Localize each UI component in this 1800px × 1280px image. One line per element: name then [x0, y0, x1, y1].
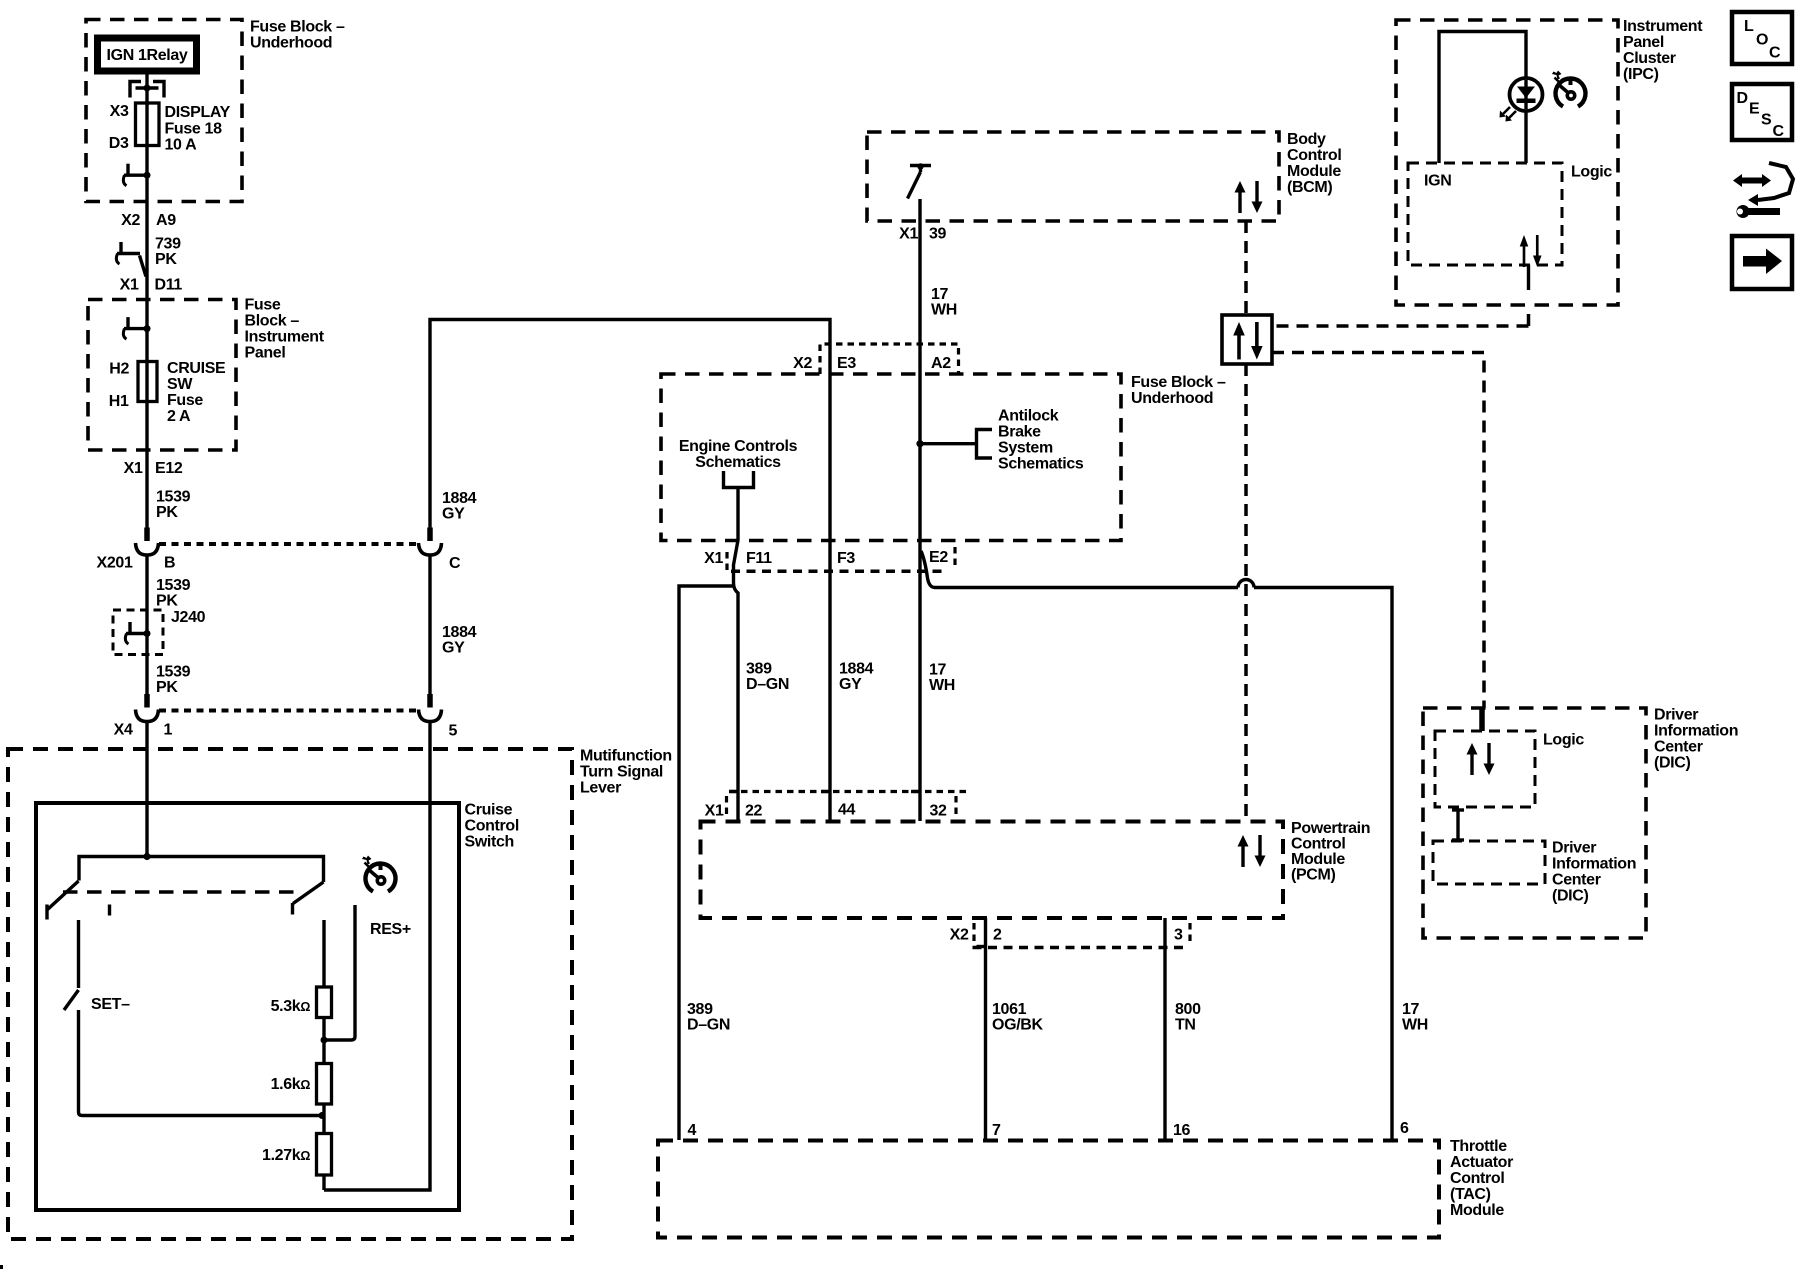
antilock brake system note: [998, 408, 1084, 473]
DIC inner box: [1433, 841, 1545, 884]
svg-text:C: C: [1769, 45, 1781, 62]
resistor 1.27k label: [262, 1147, 310, 1164]
svg-text:OG/BK: OG/BK: [992, 1017, 1043, 1034]
BCM updown arrows: [1235, 181, 1263, 213]
wire + junction SET: [319, 1104, 326, 1134]
connector PCM X1 labels: [705, 802, 947, 820]
wire fuse to X201: [145, 401, 148, 529]
page corner mark: [0, 1265, 3, 1269]
svg-text:Fuse Block –: Fuse Block –: [250, 19, 345, 36]
svg-text:A9: A9: [156, 212, 176, 229]
svg-text:RES+: RES+: [370, 921, 411, 938]
svg-text:1539: 1539: [156, 664, 191, 681]
wire 1539 PK label (below J240): [156, 664, 191, 697]
svg-text:389: 389: [746, 661, 772, 678]
svg-text:L: L: [1744, 18, 1754, 35]
svg-text:1061: 1061: [992, 1001, 1027, 1018]
switch gauge icon: [362, 856, 396, 892]
svg-text:GY: GY: [839, 676, 862, 693]
svg-text:SET–: SET–: [91, 996, 130, 1013]
svg-text:(TAC): (TAC): [1450, 1186, 1491, 1203]
switch center contact tick: [108, 905, 111, 916]
IPC internal wire: [1439, 32, 1526, 164]
svg-text:X2: X2: [793, 355, 812, 372]
wire 17 WH label: [931, 286, 957, 319]
connector row PCM X2 2 3: [973, 923, 1191, 948]
DIC inner label: [1552, 840, 1636, 905]
svg-text:Throttle: Throttle: [1450, 1138, 1507, 1155]
svg-text:1539: 1539: [156, 489, 191, 506]
svg-text:Fuse: Fuse: [167, 392, 203, 409]
antilock bracket: [977, 430, 993, 459]
wire + junction RES: [321, 1018, 328, 1064]
svg-text:F11: F11: [746, 550, 772, 567]
svg-text:800: 800: [1175, 1001, 1201, 1018]
fuse block instrument panel label: [245, 297, 325, 362]
connector X1 39 labels: [899, 226, 946, 243]
wire 17 WH from BCM: [918, 199, 921, 552]
wire fuse to X2-A9: [145, 145, 148, 299]
svg-text:PK: PK: [156, 679, 178, 696]
svg-text:1884: 1884: [442, 490, 477, 507]
driver information center label: [1654, 707, 1738, 772]
svg-text:2: 2: [993, 927, 1002, 944]
svg-text:IGN 1Relay: IGN 1Relay: [107, 47, 188, 64]
cruise control switch box: [36, 803, 459, 1210]
resistor 1.27k: [317, 1134, 332, 1176]
engine controls bracket: [724, 471, 754, 488]
svg-text:O: O: [1756, 32, 1768, 49]
wire 17 WH label (mid): [929, 662, 955, 695]
svg-text:X1: X1: [704, 550, 723, 567]
fuse CRUISE pin labels H2 H1: [109, 361, 130, 411]
wire 800 TN label: [1175, 1001, 1201, 1034]
svg-text:Center: Center: [1552, 872, 1601, 889]
svg-text:Underhood: Underhood: [250, 35, 332, 52]
svg-text:X2: X2: [950, 927, 969, 944]
wire 1 into switch: [143, 722, 150, 861]
powertrain control module box: [701, 822, 1284, 919]
svg-text:16: 16: [1173, 1122, 1191, 1139]
svg-text:X2: X2: [121, 212, 140, 229]
dashed link logic to junction box: [1272, 314, 1529, 326]
body control module box: [867, 132, 1279, 221]
svg-text:D–GN: D–GN: [746, 676, 789, 693]
wire 17WH arch over dashed line: [1238, 580, 1254, 588]
svg-text:(IPC): (IPC): [1623, 66, 1659, 83]
body control module label: [1287, 131, 1341, 196]
fuse block underhood (left) label: [250, 19, 345, 52]
wire relay to fuse: [145, 75, 148, 105]
svg-text:Logic: Logic: [1543, 732, 1584, 749]
wire 739 PK label: [155, 236, 181, 269]
IGN label: [1424, 173, 1451, 190]
junction box arrows: [1233, 322, 1262, 359]
svg-text:WH: WH: [1402, 1017, 1428, 1034]
svg-text:Mutifunction: Mutifunction: [580, 748, 672, 765]
svg-text:Control: Control: [1291, 836, 1345, 853]
connector X201 dotted line: [159, 542, 419, 546]
cruise control switch label: [465, 802, 519, 851]
icon right arrow box: [1732, 236, 1792, 289]
multifunction turn signal lever box: [8, 749, 572, 1239]
PCM updown arrows: [1238, 835, 1266, 867]
svg-text:17: 17: [931, 286, 949, 303]
fuse block internal clip: [123, 164, 150, 186]
svg-text:Information: Information: [1654, 723, 1738, 740]
svg-text:4: 4: [688, 1122, 697, 1139]
connector 5 label: [449, 723, 458, 740]
connector PCM X2 labels: [950, 927, 1183, 944]
dashed link junction to DIC: [1272, 353, 1484, 709]
svg-text:C: C: [449, 555, 461, 572]
svg-text:WH: WH: [931, 302, 957, 319]
fuse block ip internal clip: [123, 317, 150, 339]
svg-text:1.27kΩ: 1.27kΩ: [262, 1147, 310, 1164]
svg-text:Control: Control: [465, 818, 519, 835]
svg-text:D11: D11: [155, 277, 183, 294]
IPC gauge icon: [1552, 71, 1586, 107]
svg-text:WH: WH: [929, 677, 955, 694]
svg-text:S: S: [1761, 112, 1772, 129]
svg-text:GY: GY: [442, 640, 465, 657]
wire 389 D-GN label (bottom): [687, 1001, 730, 1034]
svg-text:32: 32: [930, 803, 948, 820]
connector X4 dotted line: [159, 709, 419, 713]
svg-text:5.3kΩ: 5.3kΩ: [271, 998, 311, 1015]
svg-text:(DIC): (DIC): [1552, 888, 1588, 905]
dashed link junction down to PCM: [1244, 364, 1248, 821]
wire 800 TN: [1163, 918, 1166, 1140]
switch rocker right lever: [293, 882, 324, 915]
svg-text:739: 739: [155, 236, 181, 253]
logic label (DIC): [1543, 732, 1584, 749]
svg-text:SW: SW: [167, 376, 193, 393]
svg-text:Actuator: Actuator: [1450, 1154, 1513, 1171]
wire 1061 OG/BK: [977, 918, 986, 1140]
svg-text:Lever: Lever: [580, 780, 621, 797]
svg-text:(BCM): (BCM): [1287, 179, 1332, 196]
svg-text:Body: Body: [1287, 131, 1326, 148]
svg-text:PK: PK: [155, 251, 177, 268]
svg-text:Module: Module: [1450, 1202, 1504, 1219]
SET- switch upper wire: [77, 920, 80, 988]
switch rocker bar: [79, 857, 324, 883]
resistor 5.3k label: [271, 998, 311, 1015]
wire 17WH to TAC pin6: [1254, 588, 1392, 1141]
svg-text:Underhood: Underhood: [1131, 390, 1213, 407]
RES+ wire: [324, 905, 355, 1040]
svg-text:1: 1: [164, 722, 173, 739]
PCM X1 terminal stubs: [729, 790, 920, 793]
fuse DISPLAY Fuse 18 10A: [136, 103, 160, 146]
svg-text:389: 389: [687, 1001, 713, 1018]
svg-text:E: E: [1749, 101, 1760, 118]
svg-text:Fuse 18: Fuse 18: [165, 121, 223, 138]
wire X201 to X4: [145, 555, 148, 695]
svg-text:Antilock: Antilock: [998, 408, 1059, 425]
powertrain control module label: [1291, 820, 1370, 884]
svg-text:X4: X4: [114, 722, 133, 739]
svg-text:D–GN: D–GN: [687, 1017, 730, 1034]
DIC logic updown arrows: [1467, 743, 1495, 775]
instrument panel cluster label: [1623, 18, 1703, 83]
wire into cruise fuse: [145, 299, 148, 402]
LED indicator: [1500, 78, 1543, 122]
svg-text:X3: X3: [110, 103, 129, 120]
wire 1884 GY label (mid): [839, 661, 874, 694]
connector X201 labels: [97, 555, 176, 572]
svg-text:Control: Control: [1287, 147, 1341, 164]
BCM internal switch: [908, 163, 932, 198]
svg-text:IGN: IGN: [1424, 173, 1451, 190]
wire resistor to bottom: [322, 1175, 325, 1190]
svg-text:D3: D3: [109, 135, 129, 152]
svg-text:B: B: [164, 555, 175, 572]
wire 17 WH label (bottom): [1402, 1001, 1428, 1034]
svg-text:Engine Controls: Engine Controls: [679, 438, 798, 455]
LED to logic wire: [1524, 111, 1527, 163]
svg-text:X1: X1: [120, 277, 139, 294]
connector X1 E12 labels: [124, 460, 183, 477]
multifunction turn signal lever label: [580, 748, 672, 797]
svg-text:X1: X1: [899, 226, 918, 243]
driver information center box: [1423, 708, 1646, 938]
wire to 5.3k resistor: [322, 920, 325, 988]
logic label (IPC): [1571, 164, 1612, 181]
svg-text:Turn Signal: Turn Signal: [580, 764, 663, 781]
svg-text:Cruise: Cruise: [465, 802, 513, 819]
wire 389 D-GN from engine controls: [734, 488, 739, 822]
fuse block underhood (left) box: [86, 20, 242, 202]
svg-text:10 A: 10 A: [165, 137, 198, 154]
icon LOC box: [1732, 12, 1792, 64]
splice J240 symbol: [125, 622, 150, 644]
svg-text:1884: 1884: [839, 661, 874, 678]
wire 1539 PK label (above X201): [156, 489, 191, 522]
svg-text:Switch: Switch: [465, 834, 514, 851]
svg-text:TN: TN: [1175, 1017, 1196, 1034]
fuse block instrument panel box: [88, 300, 236, 451]
svg-text:39: 39: [929, 226, 947, 243]
svg-text:D: D: [1737, 90, 1748, 107]
RES+ label: [370, 921, 411, 938]
connector X4 labels: [114, 722, 173, 739]
svg-text:1884: 1884: [442, 624, 477, 641]
throttle actuator control module box: [658, 1141, 1439, 1238]
connector clip X1 D11: [116, 242, 146, 277]
svg-text:7: 7: [992, 1122, 1001, 1139]
relay output terminal brackets: [130, 82, 164, 98]
svg-text:C: C: [1773, 123, 1785, 140]
svg-text:Schematics: Schematics: [695, 454, 781, 471]
fuse DISPLAY pin labels X3 D3: [109, 103, 129, 152]
svg-text:5: 5: [449, 723, 458, 740]
DIC logic box: [1435, 731, 1535, 807]
switch rocker dashed bar: [63, 890, 303, 894]
svg-text:GY: GY: [442, 506, 465, 523]
svg-text:DISPLAY: DISPLAY: [165, 104, 231, 121]
wire 5 into switch (right side): [324, 722, 430, 1191]
svg-text:Powertrain: Powertrain: [1291, 820, 1370, 837]
svg-text:17: 17: [929, 662, 947, 679]
svg-text:Instrument: Instrument: [245, 329, 325, 346]
wire 1884 GY label (below C): [442, 624, 477, 657]
wire C to connector 5: [428, 555, 431, 695]
throttle actuator control label: [1450, 1138, 1513, 1219]
svg-text:H2: H2: [109, 361, 129, 378]
IPC logic box: [1408, 163, 1562, 265]
svg-text:Panel: Panel: [245, 345, 286, 362]
svg-text:Center: Center: [1654, 739, 1703, 756]
splice J240 box: [113, 610, 163, 655]
svg-text:6: 6: [1400, 1120, 1409, 1137]
connector X4 pin 5: [419, 694, 442, 722]
IPC logic updown arrows: [1520, 235, 1542, 267]
svg-text:1.6kΩ: 1.6kΩ: [271, 1076, 311, 1093]
svg-text:A2: A2: [931, 355, 951, 372]
svg-text:Driver: Driver: [1654, 707, 1698, 724]
resistor 1.6k label: [271, 1076, 311, 1093]
wire 1539 PK label (below X201): [156, 577, 191, 610]
svg-text:J240: J240: [171, 609, 206, 626]
ABS junction + stub: [916, 440, 976, 447]
instrument panel cluster box: [1396, 20, 1618, 305]
engine controls schematics note: [679, 438, 798, 471]
wire 1061 OG/BK label: [992, 1001, 1043, 1034]
svg-text:H1: H1: [109, 393, 129, 410]
icon DESC box: [1732, 84, 1792, 140]
DIC I-bar link: [1452, 810, 1464, 840]
resistor 1.6k: [317, 1064, 332, 1105]
connector row PCM X1 22 44 32: [727, 792, 969, 817]
svg-text:22: 22: [745, 803, 763, 820]
SET- label: [91, 996, 130, 1013]
connector X201 C: [419, 528, 442, 556]
resistor 5.3k: [317, 987, 332, 1018]
svg-text:System: System: [998, 440, 1053, 457]
svg-text:E12: E12: [155, 460, 183, 477]
icon arrows wrench: [1733, 163, 1793, 218]
splice J240 label: [171, 609, 206, 626]
svg-text:Module: Module: [1287, 163, 1341, 180]
svg-text:X201: X201: [97, 555, 133, 572]
connector X2 E3 A2 labels: [793, 355, 951, 372]
svg-text:CRUISE: CRUISE: [167, 360, 226, 377]
svg-text:(DIC): (DIC): [1654, 755, 1690, 772]
connector X1 F11 F3 E2 labels: [704, 549, 948, 567]
svg-text:X1: X1: [705, 803, 724, 820]
junction updown box: [1222, 315, 1272, 364]
fuse CRUISE SW Fuse 2A: [138, 362, 157, 402]
wire branch to TAC pin4: [679, 586, 733, 1140]
wire 1884 GY (C up, across, down to PCM 44): [430, 320, 830, 822]
connector row X2 E3 A2: [820, 344, 959, 374]
TAC pin labels 4 7 16 6: [688, 1120, 1410, 1139]
svg-text:F3: F3: [837, 550, 855, 567]
svg-text:Schematics: Schematics: [998, 456, 1084, 473]
connector X2 A9 labels: [121, 212, 176, 229]
fuse block underhood (center) box: [661, 374, 1121, 541]
wire E2 to 17WH horizontal: [921, 551, 1238, 588]
svg-text:3: 3: [1174, 927, 1183, 944]
wire 32 to PCM: [918, 552, 921, 821]
SET- wire to resistor chain: [79, 1010, 323, 1116]
svg-text:Block –: Block –: [245, 313, 300, 330]
svg-text:PK: PK: [156, 504, 178, 521]
wire 1884 GY label (above C): [442, 490, 477, 523]
connector C label: [449, 555, 461, 572]
fuse DISPLAY value label: [165, 104, 231, 154]
connector X1 D11 labels: [120, 277, 183, 294]
switch rocker left lever: [47, 881, 79, 920]
fuse CRUISE value label: [167, 360, 226, 425]
svg-text:Module: Module: [1291, 851, 1345, 868]
svg-text:1539: 1539: [156, 577, 191, 594]
svg-text:2 A: 2 A: [167, 408, 191, 425]
IGN 1 Relay box: [98, 38, 197, 71]
SET- switch lever: [64, 990, 79, 1010]
svg-text:Fuse: Fuse: [245, 297, 281, 314]
svg-text:Driver: Driver: [1552, 840, 1596, 857]
svg-text:E2: E2: [929, 549, 948, 566]
svg-text:Cluster: Cluster: [1623, 50, 1676, 67]
connector X4 pin 1: [136, 694, 159, 722]
svg-text:E3: E3: [837, 355, 856, 372]
svg-text:PK: PK: [156, 593, 178, 610]
connector row X1 F11 F3 E2: [727, 547, 955, 571]
wire logic to IPC edge: [1527, 265, 1530, 290]
DIC pin bar: [1479, 708, 1485, 731]
fuse block underhood (center) label: [1131, 374, 1226, 407]
svg-text:Logic: Logic: [1571, 164, 1612, 181]
svg-text:44: 44: [838, 802, 856, 819]
dashed link BCM down: [1244, 221, 1248, 315]
svg-text:17: 17: [1402, 1001, 1420, 1018]
connector X201 B: [136, 528, 159, 556]
svg-text:(PCM): (PCM): [1291, 867, 1335, 884]
svg-text:Instrument: Instrument: [1623, 18, 1703, 35]
svg-text:Panel: Panel: [1623, 34, 1664, 51]
svg-text:Fuse Block –: Fuse Block –: [1131, 374, 1226, 391]
svg-text:Control: Control: [1450, 1170, 1504, 1187]
svg-text:Information: Information: [1552, 856, 1636, 873]
svg-text:X1: X1: [124, 460, 143, 477]
wire 389 D-GN label (mid): [746, 661, 789, 694]
svg-text:Brake: Brake: [998, 424, 1041, 441]
